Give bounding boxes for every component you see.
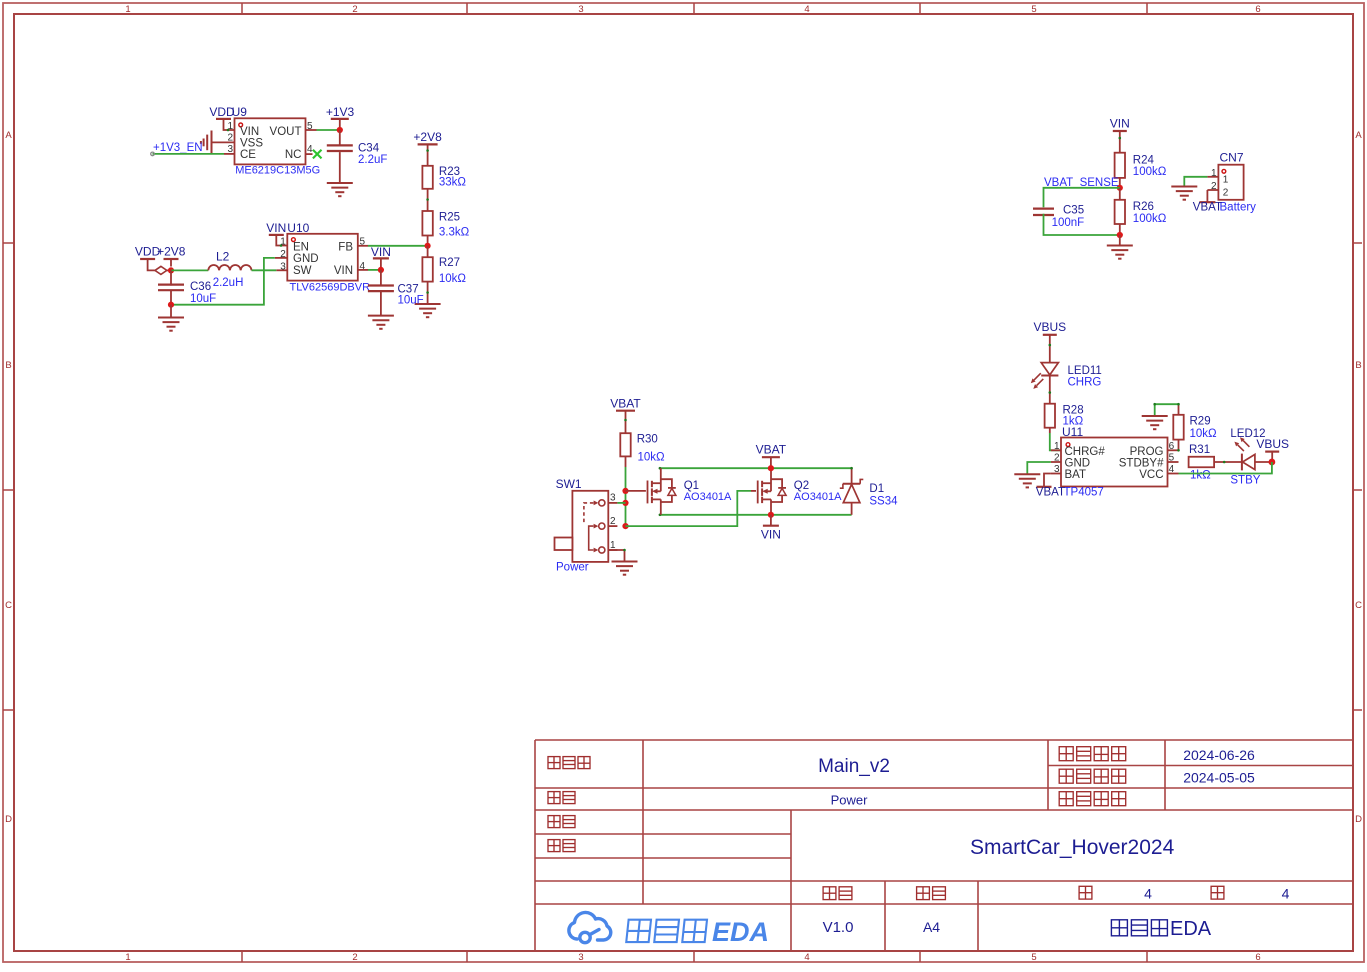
svg-text:100nF: 100nF [1052, 217, 1085, 229]
svg-text:4: 4 [307, 144, 313, 155]
power flag VBAT (R30) [610, 397, 641, 434]
svg-text:VIN: VIN [371, 245, 391, 259]
wire U11 GND to ground [1027, 462, 1051, 474]
junction node FB divider [425, 243, 431, 249]
svg-text:VIN: VIN [761, 528, 781, 542]
svg-text:2: 2 [352, 4, 357, 15]
svg-text:CHRG: CHRG [1068, 377, 1102, 389]
junction node VBAT_SENSE [1117, 185, 1123, 191]
svg-text:NC: NC [285, 149, 302, 161]
svg-text:GND: GND [1065, 457, 1091, 469]
svg-text:4: 4 [360, 261, 366, 272]
svg-text:100kΩ: 100kΩ [1133, 166, 1167, 178]
junction node VIN rail [768, 512, 774, 518]
wire VBAT_SENSE to C35 [1044, 188, 1120, 208]
transistor Q1 [648, 468, 676, 515]
svg-text:D1: D1 [869, 483, 884, 495]
svg-text:2024-05-05: 2024-05-05 [1183, 770, 1255, 786]
svg-text:10uF: 10uF [398, 295, 424, 307]
junction node +1V3 [337, 127, 343, 133]
wire PROG to R29 [1177, 440, 1180, 452]
svg-text:2.2uF: 2.2uF [358, 154, 387, 166]
svg-text:2: 2 [352, 952, 357, 963]
svg-text:4: 4 [1169, 464, 1175, 475]
svg-text:10kΩ: 10kΩ [439, 273, 467, 285]
svg-text:FB: FB [338, 241, 353, 253]
svg-text:VIN: VIN [334, 265, 353, 277]
svg-text:3: 3 [280, 261, 286, 272]
power flag VBUS (LED12) [1256, 437, 1289, 462]
capacitor C37 [368, 270, 394, 315]
svg-text:ME6219C13M5G: ME6219C13M5G [235, 165, 320, 177]
svg-text:D: D [5, 814, 12, 825]
svg-text:SmartCar_Hover2024: SmartCar_Hover2024 [970, 836, 1175, 859]
svg-text:L2: L2 [216, 250, 230, 264]
wire U9 VOUT to +1V3 node [317, 129, 340, 131]
svg-text:C: C [5, 600, 12, 611]
IC U10 [275, 234, 368, 281]
svg-text:R24: R24 [1133, 155, 1155, 167]
svg-text:B: B [5, 360, 11, 371]
svg-text:2: 2 [227, 133, 233, 144]
svg-text:4: 4 [1282, 886, 1290, 902]
svg-text:R29: R29 [1190, 416, 1211, 428]
wire C35 bottom to R26 bottom [1044, 214, 1120, 235]
svg-text:Power: Power [556, 562, 589, 574]
power flag VIN (below Q2) [761, 515, 781, 542]
svg-text:SW1: SW1 [556, 477, 582, 491]
wire SW1 pin3 to node [617, 502, 625, 504]
svg-text:BAT: BAT [1065, 469, 1087, 481]
svg-text:2: 2 [1223, 188, 1229, 199]
svg-text:R26: R26 [1133, 201, 1154, 213]
power flag VBAT (U11 BAT) [1036, 474, 1065, 499]
capacitor C35 [1033, 209, 1054, 235]
svg-text:U10: U10 [287, 221, 309, 235]
connector CN7 [1207, 165, 1243, 200]
svg-text:1: 1 [1223, 174, 1229, 185]
svg-text:VBUS: VBUS [1033, 320, 1066, 334]
junction node VBUS/LED12 [1269, 459, 1276, 466]
LED LED12 [1234, 437, 1272, 470]
svg-text:VIN: VIN [1110, 117, 1130, 131]
svg-text:10uF: 10uF [190, 293, 216, 305]
wire CN7 pin1 to ground [1184, 177, 1207, 186]
svg-text:VSS: VSS [240, 137, 263, 149]
power flag VBUS (LED11) [1033, 320, 1066, 363]
svg-text:VOUT: VOUT [270, 126, 302, 138]
power flag VIN (battery sense) [1110, 117, 1130, 153]
junction node C36 bottom [168, 302, 174, 308]
svg-text:1kΩ: 1kΩ [1190, 470, 1211, 482]
ground (C37) [368, 316, 394, 329]
svg-text:C: C [1355, 600, 1362, 611]
svg-text:U11: U11 [1062, 425, 1083, 439]
ground (C34) [327, 183, 353, 196]
svg-text:Battery: Battery [1220, 202, 1257, 214]
svg-text:STBY: STBY [1230, 475, 1260, 487]
wire +1V3_EN to U9 CE [151, 152, 224, 156]
svg-text:V1.0: V1.0 [823, 919, 854, 936]
svg-text:CE: CE [240, 149, 256, 161]
svg-text:EN: EN [293, 241, 309, 253]
resistor R26 [1115, 188, 1125, 235]
svg-text:R31: R31 [1189, 444, 1210, 456]
power flag VDD (U9 pin 1) [209, 105, 235, 131]
svg-text:+2V8: +2V8 [157, 245, 186, 259]
wire VBAT top rail [659, 467, 852, 470]
power flag VBAT (Q2) [756, 443, 787, 469]
wire L2 to U10 SW [252, 269, 277, 271]
resistor R31 [1189, 457, 1242, 468]
svg-text:10kΩ: 10kΩ [1190, 428, 1218, 440]
resistor R28 [1045, 404, 1055, 433]
svg-text:2: 2 [280, 249, 286, 260]
svg-text:+1V3_EN: +1V3_EN [153, 142, 203, 154]
wire VBUS node to U11 VCC [1179, 462, 1272, 474]
svg-text:A: A [5, 130, 12, 141]
svg-text:Main_v2: Main_v2 [818, 756, 890, 777]
svg-text:VIN: VIN [240, 126, 259, 138]
junction node VBAT rail [768, 465, 774, 471]
power flag +1V3 [326, 105, 355, 127]
svg-text:B: B [1355, 360, 1361, 371]
wire R30 to switch pins [625, 467, 627, 526]
junction node VIN/C37 [378, 267, 384, 273]
junction node gate branch [622, 488, 628, 494]
svg-text:VBAT: VBAT [756, 443, 787, 457]
transistor Q2 [758, 468, 786, 515]
junction node VDD/+2V8 [168, 267, 174, 273]
svg-text:1: 1 [1054, 441, 1060, 452]
svg-text:3.3kΩ: 3.3kΩ [439, 227, 470, 239]
svg-text:3: 3 [578, 4, 583, 15]
svg-text:STDBY#: STDBY# [1119, 457, 1164, 469]
ground (C36) [158, 305, 184, 331]
capacitor C34 [327, 130, 353, 182]
wire U10 VIN pin to node [368, 269, 381, 271]
svg-text:D: D [1355, 814, 1362, 825]
diode D1 [840, 467, 864, 515]
svg-text:2.2uH: 2.2uH [213, 277, 244, 289]
IC U9 [212, 118, 317, 164]
power flag VIN (U10 EN) [266, 221, 287, 247]
svg-text:LED11: LED11 [1068, 365, 1102, 377]
switch SW1 [555, 491, 618, 562]
svg-text:10kΩ: 10kΩ [638, 452, 666, 464]
svg-text:VBAT: VBAT [1036, 487, 1065, 499]
ground (CN7 pin1) [1171, 187, 1197, 200]
svg-text:33kΩ: 33kΩ [439, 176, 467, 188]
ground (U11 GND) [1014, 474, 1040, 487]
svg-text:2024-06-26: 2024-06-26 [1183, 747, 1255, 763]
svg-text:CN7: CN7 [1220, 151, 1244, 165]
svg-text:5: 5 [1031, 4, 1036, 15]
ground (R29) [1142, 416, 1168, 429]
wire R29 top to ground [1153, 403, 1179, 416]
wire SW1 pin2 to Q2 gate [626, 491, 757, 526]
svg-text:R30: R30 [637, 434, 658, 446]
svg-text:4: 4 [804, 4, 809, 15]
svg-text:VBAT: VBAT [1193, 202, 1222, 214]
svg-text:1: 1 [125, 4, 130, 15]
power flag VBAT (CN7 pin2) [1193, 190, 1222, 214]
resistor R30 [620, 433, 630, 467]
power flag +2V8 [413, 130, 442, 166]
svg-text:6: 6 [1255, 4, 1260, 15]
svg-text:5: 5 [1031, 952, 1036, 963]
power flag VIN (U10 pin4) [371, 245, 391, 270]
svg-text:5: 5 [307, 121, 313, 132]
junction node SW1 pin2 [622, 523, 628, 529]
svg-text:5: 5 [1169, 453, 1175, 464]
svg-text:100kΩ: 100kΩ [1133, 213, 1167, 225]
capacitor C36 [158, 270, 184, 304]
svg-text:1: 1 [125, 952, 130, 963]
svg-text:4: 4 [804, 952, 809, 963]
svg-text:C34: C34 [358, 143, 380, 155]
wire VIN bottom rail [659, 514, 852, 517]
svg-text:+1V3: +1V3 [326, 105, 355, 119]
svg-text:EDA: EDA [1170, 918, 1212, 940]
svg-text:A: A [1355, 130, 1362, 141]
svg-text:3: 3 [1054, 464, 1060, 475]
svg-text:C36: C36 [190, 281, 211, 293]
svg-text:6: 6 [1169, 441, 1175, 452]
wire VDD node to L2 [171, 269, 208, 271]
svg-text:R25: R25 [439, 212, 460, 224]
resistor R23 [422, 166, 432, 211]
svg-text:2: 2 [610, 516, 616, 527]
svg-text:VBUS: VBUS [1256, 437, 1289, 451]
resistor R29 [1173, 404, 1183, 439]
wire U10 GND to C36 bottom [171, 258, 275, 305]
junction node R26 bottom [1117, 232, 1123, 238]
svg-text:TLV62569DBVR: TLV62569DBVR [290, 282, 371, 294]
IC U11 [1051, 438, 1179, 487]
svg-text:AO3401A: AO3401A [684, 491, 732, 503]
svg-text:C35: C35 [1063, 205, 1084, 217]
svg-text:3: 3 [578, 952, 583, 963]
svg-text:6: 6 [1255, 952, 1260, 963]
svg-text:VBAT: VBAT [610, 397, 641, 411]
svg-text:R27: R27 [439, 257, 460, 269]
svg-text:4: 4 [1144, 886, 1152, 902]
wire gate branch to Q1 gate [626, 490, 646, 492]
power flag +2V8 (left, diamond) [155, 245, 186, 275]
wire R28 to U11 CHRG# [1050, 433, 1061, 450]
inductor L2 [208, 265, 251, 270]
svg-text:3: 3 [227, 144, 233, 155]
svg-text:+2V8: +2V8 [413, 130, 442, 144]
resistor R25 [422, 211, 432, 246]
svg-text:SW: SW [293, 265, 312, 277]
no-connect X on U9 NC [313, 150, 322, 159]
svg-text:1: 1 [280, 237, 286, 248]
svg-text:GND: GND [293, 253, 319, 265]
resistor R24 [1115, 153, 1125, 188]
svg-text:EDA: EDA [712, 917, 769, 947]
svg-text:2: 2 [1211, 181, 1217, 192]
svg-text:3: 3 [610, 493, 616, 504]
ground (R26/C35) [1107, 235, 1133, 259]
svg-text:U9: U9 [232, 105, 248, 119]
junction node SW1 pin3 [622, 500, 628, 506]
svg-text:AO3401A: AO3401A [794, 491, 842, 503]
wire U10 FB to divider node [368, 245, 428, 247]
power flag VDD (left) [135, 245, 161, 271]
svg-text:5: 5 [360, 237, 366, 248]
svg-text:TP4057: TP4057 [1064, 487, 1104, 499]
resistor R27 [422, 246, 432, 304]
ground (U9 VSS, rotated) [201, 131, 212, 155]
svg-text:Power: Power [831, 793, 869, 808]
svg-text:A4: A4 [923, 919, 940, 935]
svg-text:1: 1 [227, 121, 233, 132]
svg-text:SS34: SS34 [869, 496, 898, 508]
ground (R27) [415, 304, 441, 317]
svg-text:VIN: VIN [266, 221, 286, 235]
ground (SW1 pin1) [612, 562, 638, 575]
svg-text:2: 2 [1054, 453, 1060, 464]
svg-text:VCC: VCC [1139, 469, 1163, 481]
wire SW1 pin1 to ground [608, 549, 626, 561]
svg-text:1: 1 [1211, 168, 1217, 179]
LED LED11 [1031, 363, 1059, 404]
